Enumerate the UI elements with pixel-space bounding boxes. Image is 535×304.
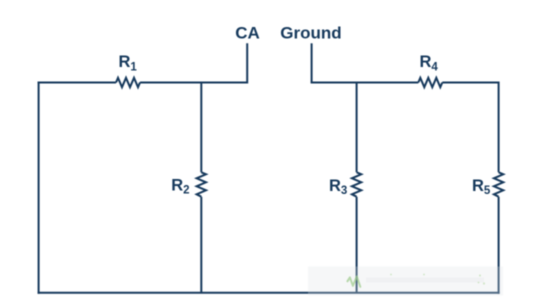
watermark speck 2 (423, 274, 425, 276)
wire branch R2 lower (200, 197, 202, 293)
wire node Ground stub (311, 43, 313, 82)
watermark logo (347, 276, 360, 286)
svg-text:Ground: Ground (280, 24, 341, 43)
svg-text:R4: R4 (420, 53, 439, 74)
watermark speck 1 (390, 274, 392, 276)
svg-text:R1: R1 (119, 53, 138, 74)
watermark speck 4 (478, 282, 480, 284)
wire top left segment (38, 82, 116, 84)
wire branch R2 upper (200, 83, 202, 173)
resistor R2 (197, 172, 206, 196)
resistor R1 (116, 78, 140, 87)
wire top right segment (311, 82, 419, 84)
svg-text:R5: R5 (472, 177, 491, 197)
wire branch R3 upper (356, 83, 358, 173)
svg-text:R2: R2 (171, 177, 189, 197)
svg-text:R3: R3 (329, 177, 347, 197)
watermark speck 3 (479, 275, 481, 277)
wire right side upper (498, 82, 500, 173)
wire top right corner (442, 82, 498, 84)
watermark speck 5 (483, 282, 485, 284)
watermark overlay (308, 267, 503, 296)
resistor R5 (494, 172, 503, 196)
wire top to node CA (140, 43, 247, 82)
wire left side (38, 82, 40, 294)
wire right side lower (498, 197, 500, 294)
resistor R3 (352, 172, 361, 196)
wire branch R3 lower (356, 197, 358, 293)
svg-text:CA: CA (235, 24, 260, 43)
resistor R4 (418, 78, 442, 87)
wire bottom (38, 292, 500, 294)
watermark ghost text streak (366, 278, 484, 283)
